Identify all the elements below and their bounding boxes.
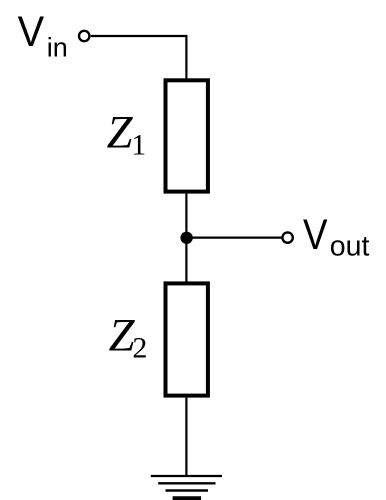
svg-text:1: 1: [131, 128, 146, 161]
svg-text:V: V: [18, 8, 45, 56]
svg-text:in: in: [47, 32, 68, 62]
wire Z2 to ground: [185, 398, 187, 476]
wire node down to Z2: [185, 238, 187, 283]
wire input horizontal: [91, 35, 187, 37]
ground line 4: [173, 496, 201, 500]
ground line 2: [158, 482, 215, 484]
svg-text:V: V: [303, 211, 328, 259]
impedance Z1 (rectangle): [166, 80, 208, 191]
wire input vertical down to Z1: [185, 35, 187, 79]
svg-text:2: 2: [132, 331, 147, 364]
svg-text:out: out: [330, 231, 370, 263]
ground line 3: [166, 489, 209, 491]
ground line 1: [151, 475, 222, 477]
terminal input open circle: [79, 31, 89, 41]
terminal output open circle: [282, 232, 292, 242]
wire Z1 to node: [185, 194, 187, 238]
junction node dot: [180, 232, 192, 244]
wire node to output terminal: [187, 237, 282, 239]
impedance Z2 (rectangle): [166, 283, 208, 395]
svg-text:Z: Z: [107, 107, 134, 158]
